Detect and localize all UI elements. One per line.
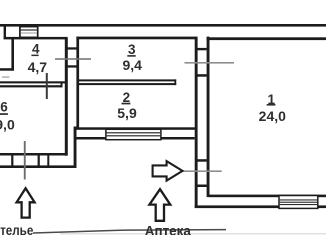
wall B lower [74, 127, 77, 168]
room 6 bottom wall inner line [0, 153, 68, 156]
svg-text:Ателье: Ателье [0, 223, 34, 235]
room 1 bottom wall inner line [209, 195, 326, 198]
room 6 top wall end connector [61, 81, 63, 87]
svg-text:Аптека: Аптека [145, 223, 191, 235]
room 4 top wall [4, 37, 68, 40]
wall A (vertical between rooms 4/6 and 3/2) [65, 38, 68, 156]
gray section line AB [55, 58, 91, 60]
label room 3 number underline [127, 55, 135, 57]
entrance arrow right [153, 161, 183, 181]
bottom rule dark [33, 230, 226, 233]
room 3 bottom wall upper line [79, 79, 176, 81]
entrance arrow up center [149, 189, 170, 221]
wall jog to left edge [0, 68, 14, 71]
wall C (left of shaft at rooms 3/1) [195, 37, 198, 208]
window W2 (room 2 bottom) [106, 129, 161, 139]
left outer wall [4, 24, 6, 39]
svg-text:3: 3 [128, 42, 136, 57]
svg-text:2: 2 [123, 90, 131, 105]
gray section line CD top [185, 62, 235, 64]
room 2 bottom wall inner line [76, 127, 197, 130]
label room 1 number underline [267, 104, 276, 106]
svg-text:9,4: 9,4 [122, 57, 142, 73]
room 6 bottom wall divider 3 [47, 154, 49, 166]
window W4 (vent box top-left) [20, 27, 38, 38]
svg-text:24,0: 24,0 [259, 108, 286, 124]
room 1 top wall [207, 37, 326, 40]
shaft CD connector 2 [198, 74, 207, 77]
shaft AB connector 2 [67, 65, 76, 67]
room 6 bottom wall outer line [0, 165, 77, 168]
room 4 left wall [11, 38, 14, 71]
wall B upper (room 3 / room 2 left wall) [76, 37, 79, 129]
shaft CD connector 4 [198, 185, 207, 188]
room 3 bottom wall end cap [174, 79, 176, 85]
label room 4 number underline [31, 55, 38, 57]
room 1 bottom wall outer line [195, 205, 326, 208]
shaft CD connector 1 [198, 48, 207, 50]
window W1 (room 1 bottom) [279, 196, 318, 209]
gray section line CD bottom [183, 170, 222, 172]
shaft AB connector 1 [67, 47, 76, 49]
svg-text:9,0: 9,0 [0, 117, 15, 133]
bottom rule light [60, 233, 326, 234]
room 3 bottom wall lower line [79, 83, 176, 85]
shaft CD connector 3 [198, 159, 207, 162]
door tick room 4/6 [46, 73, 48, 99]
wall D (room 1 left wall) [207, 37, 210, 198]
room 6 top wall lower line [0, 85, 63, 87]
svg-text:5,9: 5,9 [117, 105, 137, 121]
room 6 top wall upper line [0, 81, 66, 83]
svg-text:6: 6 [0, 99, 8, 114]
room 3 top wall [76, 37, 195, 40]
room 6 bottom wall divider 1 [11, 154, 13, 166]
gray dash [2, 76, 9, 77]
svg-text:4: 4 [32, 41, 40, 56]
room 6 bottom wall divider 2 [38, 154, 40, 166]
entrance arrow up left [17, 188, 35, 217]
svg-text:4,7: 4,7 [28, 59, 48, 75]
label room 6 number underline [0, 113, 8, 115]
top outer wall [0, 24, 326, 27]
label room 2 number underline [122, 103, 131, 105]
door tick room 6 (gray) [24, 141, 26, 180]
room 2 bottom wall outer line [75, 137, 195, 140]
